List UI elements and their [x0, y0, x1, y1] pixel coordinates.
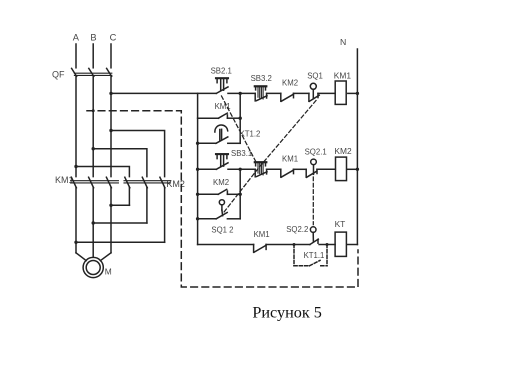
wire join poles 2-5 [93, 222, 147, 224]
junction pole 3-4 [109, 204, 112, 207]
pushbutton SB3.2 [251, 74, 272, 101]
limit switch SQ2.1 [305, 147, 327, 177]
wire control feed from C to row 1 [111, 92, 216, 94]
wire phase C from QF to KM1 pole 3 [110, 76, 112, 176]
node N [340, 37, 346, 47]
svg-text:QF: QF [52, 70, 65, 80]
junction row1b sub-rail [239, 117, 242, 120]
svg-text:N: N [340, 37, 346, 47]
coil KT [335, 219, 347, 256]
svg-text:KM1: KM1 [282, 154, 298, 163]
wire row2 start [198, 168, 217, 170]
wire KM2 pole 4 output [128, 188, 130, 206]
wire KM1 pole 1 output [75, 188, 77, 253]
junction row2b sub-rail [239, 193, 242, 196]
enclosure dashed border [87, 111, 358, 287]
contact KM2 NC row1 [281, 78, 298, 101]
contact KM2 aux row2b [198, 178, 241, 194]
junction row2 sub-rail [239, 168, 242, 171]
svg-text:KM2: KM2 [334, 146, 352, 156]
svg-text:SB3.1: SB3.1 [231, 149, 252, 158]
svg-text:KM2: KM2 [213, 178, 229, 187]
circuit breaker QF [52, 68, 112, 79]
pushbutton SB2.2 [255, 162, 267, 177]
wire row2 after SQ2.1 [317, 168, 335, 170]
contact KT1.2 time relay [198, 125, 261, 143]
svg-text:SQ2.1: SQ2.1 [305, 147, 327, 156]
wire KM1 pole 3 output [110, 188, 112, 253]
wire phase B top [92, 44, 94, 68]
svg-text:SQ1: SQ1 [307, 71, 323, 80]
junction A branch [74, 165, 77, 168]
contactor KM2 main contacts [124, 177, 185, 189]
pushbutton SB3.1 [216, 149, 252, 169]
wire phase A from QF to KM1 pole 1 [75, 76, 77, 176]
svg-text:Рисунок 5: Рисунок 5 [252, 304, 322, 322]
node B [90, 33, 96, 43]
contact KT1.1 dashed branch [294, 245, 327, 266]
junction pole 1-6 [74, 241, 77, 244]
svg-text:SB3.2: SB3.2 [251, 74, 272, 83]
junction pole 2-5 [92, 221, 95, 224]
wire row3 after SQ2.2 [319, 244, 335, 246]
wire join poles 1-6 [76, 241, 165, 243]
junction row1c left rail [196, 142, 199, 145]
wire row2 after SB3.1 [228, 168, 255, 170]
junction control tap on C [109, 92, 112, 95]
contactor KM1 main contacts [55, 175, 118, 188]
wire KM2 pole 5 output [146, 188, 148, 223]
junction dashed border on B line [92, 109, 95, 112]
junction row2c left rail [196, 217, 199, 220]
coil KM1 [334, 70, 352, 104]
svg-text:KT: KT [335, 219, 346, 229]
contact KM1 row3 [254, 230, 270, 252]
junction KT1.1 right tap [326, 243, 329, 246]
pushbutton SB2.1 [211, 67, 232, 94]
node A [73, 33, 80, 43]
junction B branch [92, 147, 95, 150]
junction KT1.1 left tap [293, 243, 296, 246]
wire left rail [197, 93, 199, 244]
wire row1 after SQ1 [318, 92, 335, 94]
wire KM2 coil to N [347, 168, 358, 170]
node C [110, 33, 117, 43]
wire row1 after SB2.1 [228, 92, 255, 94]
wire row3 start [198, 244, 254, 246]
wire row2 after SB2.2 [267, 168, 281, 170]
junction KM2 coil N rail [356, 168, 359, 171]
svg-text:C: C [110, 33, 117, 43]
wire phase A top [75, 44, 77, 68]
wire phase B from QF to KM1 pole 2 [92, 76, 94, 176]
mechanical link SB2.1 to SB2.2 [222, 96, 256, 161]
motor M [83, 257, 112, 277]
svg-text:M: M [105, 266, 112, 276]
svg-text:KM1: KM1 [334, 70, 352, 80]
svg-text:KM2: KM2 [282, 78, 298, 87]
svg-text:B: B [90, 33, 96, 43]
wire motor lead right [100, 253, 111, 261]
wire B branch to KM2 pole 5 [93, 149, 147, 177]
svg-text:KT1.1: KT1.1 [304, 251, 325, 260]
wire C branch to KM2 pole 6 [111, 131, 165, 177]
mechanical link SQ2.1 to SQ2.2 [312, 177, 314, 225]
wire KM1 coil to N [348, 92, 358, 94]
wire motor lead left [76, 253, 86, 261]
junction C branch [109, 129, 112, 132]
svg-text:SB2.1: SB2.1 [211, 67, 232, 76]
wire phase C top [110, 44, 112, 68]
wire N rail [356, 49, 358, 245]
junction row2 left rail [196, 168, 199, 171]
svg-text:A: A [73, 33, 80, 43]
contact KM1 NC row2 [281, 154, 298, 177]
contact KM1 aux row1b [198, 102, 241, 118]
wire KM2 pole 6 output [164, 188, 166, 243]
wire row1 after SB3.2 [267, 92, 281, 94]
junction row1 sub-rail [239, 92, 242, 95]
mechanical link SQ1 to SQ1.2 [223, 101, 316, 214]
wire sub-rail rows 1 [239, 93, 241, 143]
junction KM1 coil N rail [356, 92, 359, 95]
wire A branch to KM2 pole 4 [76, 167, 129, 177]
wire row1 after KM2 [294, 92, 309, 94]
wire sub-rail rows 2 [239, 169, 241, 219]
limit switch SQ2.2 [286, 225, 318, 244]
wire row3 after KM1 [266, 244, 310, 246]
wire row2 after KM1 [294, 168, 307, 170]
svg-text:KM1: KM1 [254, 230, 270, 239]
wire KT coil to N [347, 244, 357, 246]
coil KM2 [334, 146, 352, 181]
wire join poles 3-4 [111, 204, 129, 206]
limit switch SQ1.2 [198, 200, 241, 235]
svg-text:SQ1 2: SQ1 2 [211, 226, 233, 235]
wire KM1 pole 2 output [92, 188, 94, 257]
limit switch SQ1 [307, 71, 323, 101]
junction row2b left rail [196, 193, 199, 196]
svg-text:SQ2.2: SQ2.2 [286, 225, 308, 234]
